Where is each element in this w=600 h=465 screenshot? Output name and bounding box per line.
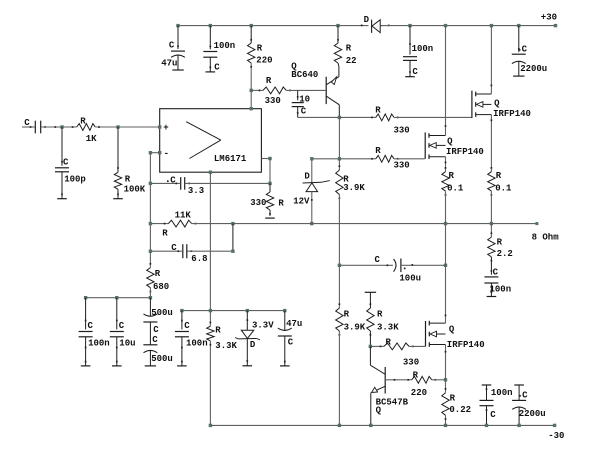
capacitor C 100n (bottom right) <box>480 385 494 425</box>
label R (3.3K mid) <box>215 326 221 336</box>
svg-text:IRFP140: IRFP140 <box>447 340 485 350</box>
wire output rail <box>192 223 537 225</box>
svg-text:11K: 11K <box>175 210 192 220</box>
capacitor C 100n (mid) <box>175 311 189 366</box>
wire BC547B base row <box>385 379 412 381</box>
svg-text:D: D <box>364 15 370 25</box>
capacitor C 500u (lower of pair) <box>143 322 157 366</box>
wire rail to 100u junction <box>445 224 447 266</box>
value IRFP140 (top) <box>493 109 531 119</box>
svg-text:C: C <box>63 157 69 167</box>
svg-text:R: R <box>162 228 168 238</box>
wire R220 to op-amp V+ <box>250 90 252 108</box>
junction feedback node <box>149 151 152 154</box>
junction top rail / C47u <box>176 24 179 27</box>
label R (shunt) <box>278 199 284 209</box>
svg-text:+30: +30 <box>541 13 557 23</box>
pin V- (bottom) <box>209 171 212 174</box>
wire input stub <box>22 126 35 128</box>
wire R330 to BC640 base <box>286 89 325 91</box>
junction 100u row left <box>338 264 341 267</box>
svg-text:C: C <box>214 63 220 73</box>
wire R1K to op-amp + <box>95 126 159 128</box>
svg-text:R: R <box>344 310 350 320</box>
value 22 <box>346 56 357 66</box>
wire - input to feedback node <box>150 152 159 154</box>
junction C3.3 row / feedback <box>149 182 152 185</box>
label R (220 base) <box>413 370 419 380</box>
label C (Zobel) <box>493 268 499 278</box>
svg-text:C: C <box>153 325 159 335</box>
junction BC640 collector node <box>338 116 341 119</box>
svg-text:R: R <box>80 116 86 126</box>
svg-text:3.3V: 3.3V <box>252 321 274 331</box>
wire gate row 2 (right) <box>394 158 425 160</box>
svg-text:Q: Q <box>494 99 500 109</box>
svg-text:100u: 100u <box>399 273 421 283</box>
resistor R 330 (output shunt) <box>265 183 275 218</box>
junction row / 500u <box>149 296 152 299</box>
junction top rail / Q1 drain <box>490 24 493 27</box>
wire Q1 source to rail <box>490 191 492 224</box>
resistor R 11K <box>164 220 197 227</box>
value 100n (ll) <box>88 339 110 349</box>
label C (6.8) <box>171 243 177 253</box>
svg-text:330: 330 <box>394 161 410 171</box>
junction feedback / 11K rail <box>149 222 152 225</box>
label +30 <box>541 13 557 23</box>
label C (input) <box>24 118 30 128</box>
svg-text:2.2: 2.2 <box>497 249 513 259</box>
svg-text:3.9K: 3.9K <box>343 183 365 193</box>
resistor R 0.1 (left) <box>442 167 449 196</box>
svg-text:R: R <box>125 175 131 185</box>
svg-text:22: 22 <box>346 56 357 66</box>
label R (11K) <box>162 228 168 238</box>
pin V+ (top) <box>250 107 253 110</box>
value 47u <box>161 59 177 69</box>
capacitor C 10u <box>110 298 124 366</box>
svg-text:C: C <box>88 321 94 331</box>
capacitor C 100n (lower left) <box>79 298 93 366</box>
junction R1K / R100K <box>116 125 119 128</box>
value 0.1 (L) <box>447 184 464 194</box>
value 330 (gate Q2) <box>394 161 410 171</box>
junction 100u row right <box>444 264 447 267</box>
resistor R 3.9K (lower) <box>336 303 343 335</box>
label R (1K) <box>80 116 86 126</box>
junction C2200u / -30 rail <box>517 424 520 427</box>
label D (3.3V) <box>250 340 256 350</box>
svg-text:R: R <box>278 199 284 209</box>
value 100n (mid) <box>186 339 208 349</box>
svg-text:100n: 100n <box>412 44 434 54</box>
svg-text:C: C <box>170 175 176 185</box>
junction rail / Q1 source <box>490 222 493 225</box>
wire op-amp output <box>261 159 270 184</box>
resistor R 680 <box>147 263 154 292</box>
svg-text:Q: Q <box>449 325 455 335</box>
wire base drive row <box>251 89 263 91</box>
junction row / V- column <box>209 309 212 312</box>
capacitor C 100n (Zobel) <box>484 257 498 297</box>
wire C6.8 row left <box>150 250 182 252</box>
junction top rail / R22 <box>336 24 339 27</box>
label D (12V) <box>304 172 310 182</box>
value 330 (gate Q1) <box>394 126 410 136</box>
junction R220 / source column <box>444 378 447 381</box>
label R (2.2) <box>497 238 503 248</box>
label C (3.3) <box>170 175 176 185</box>
junction R0.22 / -30 rail <box>444 424 447 427</box>
label Q (IRFP140 mid) <box>447 137 453 147</box>
svg-text:100p: 100p <box>64 175 86 185</box>
value 3.3K (bias) <box>377 323 399 333</box>
resistor R 0.22 <box>442 380 449 426</box>
svg-text:12V: 12V <box>293 197 310 207</box>
value 100K <box>124 185 146 195</box>
pin + (non-inverting input) <box>158 123 169 133</box>
capacitor C 2200u (bottom right) <box>512 385 526 425</box>
wire input to R1K <box>41 126 76 128</box>
wire feedback vertical <box>149 153 151 268</box>
label BC547B <box>376 398 409 408</box>
capacitor C (input coupling) <box>30 121 46 134</box>
svg-text:C: C <box>301 107 307 117</box>
svg-text:C: C <box>152 335 158 345</box>
label R (gate Q3) <box>386 338 392 348</box>
svg-text:R: R <box>375 146 381 156</box>
capacitor C 3.3 (feedback) <box>167 177 190 190</box>
label C (500u upper) <box>153 325 159 335</box>
wire rail to 11K <box>150 223 168 225</box>
value 330 (shunt) <box>250 198 266 208</box>
wire 100u row left seg <box>339 264 393 266</box>
svg-text:C: C <box>375 255 381 265</box>
value 10u <box>119 339 135 349</box>
value 330 (gate Q3) <box>403 358 419 368</box>
wire -30 bottom rail <box>210 424 554 426</box>
junction R220 / R330 base drive <box>250 89 253 92</box>
svg-text:LM6171: LM6171 <box>214 154 247 164</box>
svg-text:R: R <box>449 171 455 181</box>
value 2200u (br) <box>519 409 546 419</box>
label R (0.1 L) <box>449 171 455 181</box>
value 680 <box>153 282 169 292</box>
junction -30 rail / 3.3K column <box>209 424 212 427</box>
label R (0.22) <box>450 394 456 404</box>
value 11K <box>175 210 192 220</box>
wire gate row 3 right <box>409 345 425 347</box>
label R (22) <box>346 44 352 54</box>
resistor R 100K <box>113 127 123 199</box>
svg-text:330: 330 <box>403 358 419 368</box>
capacitor C 6.8 <box>177 244 192 258</box>
junction zener / output rail <box>310 222 313 225</box>
resistor R 1K <box>77 124 96 131</box>
label C (100n mid) <box>184 321 190 331</box>
value 330 (base) <box>265 96 281 106</box>
junction top rail / Q2 drain <box>444 24 447 27</box>
label C (500u lower) <box>152 335 158 345</box>
value 47u (mid) <box>286 319 302 329</box>
junction C3.3 / output column <box>268 182 271 185</box>
label C (100n ll) <box>88 321 94 331</box>
svg-text:3.3K: 3.3K <box>215 341 237 351</box>
junction zener / gate row corner <box>310 157 313 160</box>
svg-text:220: 220 <box>411 388 427 398</box>
label R (330 base) <box>266 76 272 86</box>
junction C6.8 corner <box>231 250 234 253</box>
value 2200u (top) <box>520 64 547 74</box>
label C (2200u top) <box>519 45 528 55</box>
value 0.22 <box>449 405 471 415</box>
svg-text:0.1: 0.1 <box>495 184 512 194</box>
svg-text:C: C <box>169 41 175 51</box>
svg-text:2200u: 2200u <box>520 64 547 74</box>
wire lower-left row <box>86 297 151 299</box>
svg-text:100n: 100n <box>491 388 513 398</box>
svg-text:C: C <box>171 243 177 253</box>
svg-text:IRFP140: IRFP140 <box>493 109 531 119</box>
label R (100K) <box>125 175 131 185</box>
wire C10 bottom to collector node <box>298 116 340 118</box>
svg-text:100n: 100n <box>490 285 512 295</box>
svg-text:680: 680 <box>153 282 169 292</box>
svg-text:-30: -30 <box>548 431 564 441</box>
svg-text:R: R <box>450 394 456 404</box>
value 0.1 (R) <box>495 184 512 194</box>
svg-text:R: R <box>377 310 383 320</box>
svg-text:220: 220 <box>256 56 272 66</box>
wire 100u row right seg <box>401 264 446 266</box>
value IRFP140 (mid) <box>446 147 484 157</box>
value 6.8 <box>191 254 207 264</box>
svg-text:R: R <box>215 326 221 336</box>
svg-text:47u: 47u <box>286 319 302 329</box>
value 3.9K (up) <box>343 183 365 193</box>
resistor R 220 (base) <box>407 376 436 383</box>
svg-text:10: 10 <box>299 95 310 105</box>
value IRFP140 (bot) <box>447 340 485 350</box>
label R (gate Q2) <box>375 146 381 156</box>
resistor R 3.9K (upper) <box>336 165 343 199</box>
svg-text:C: C <box>184 321 190 331</box>
junction emitter / -30 rail <box>369 424 372 427</box>
wire gate row 3 <box>370 345 384 347</box>
svg-text:330: 330 <box>394 126 410 136</box>
svg-text:IRFP140: IRFP140 <box>446 147 484 157</box>
svg-text:10u: 10u <box>119 339 135 349</box>
svg-text:BC640: BC640 <box>291 70 318 80</box>
label C (x410) <box>412 67 418 77</box>
svg-text:500u: 500u <box>151 308 173 318</box>
label C (2200u br) <box>519 391 528 401</box>
resistor R 330 (base drive) <box>259 87 291 94</box>
svg-text:Q: Q <box>447 137 453 147</box>
svg-text:+: + <box>163 123 168 133</box>
wire 3.9K lower to -30 rail <box>338 331 340 425</box>
wire zener to gate row 2 <box>312 158 340 160</box>
capacitor C 10 (Miller) <box>292 90 304 117</box>
wire +30 top supply rail (left part) <box>178 25 369 27</box>
svg-text:330: 330 <box>250 198 266 208</box>
svg-text:47u: 47u <box>161 59 177 69</box>
junction rail / Q2 source <box>444 222 447 225</box>
diode D 12V (zener) <box>303 159 330 224</box>
wire mid-bottom row <box>182 310 285 312</box>
svg-text:C: C <box>24 118 30 128</box>
junction row / C47u corner <box>283 309 286 312</box>
value 500u (lower) <box>151 354 173 364</box>
svg-text:R: R <box>257 44 263 54</box>
label R (3.9K low) <box>344 310 350 320</box>
resistor R 0.1 (right) <box>488 167 495 196</box>
svg-text:100n: 100n <box>214 41 236 51</box>
wire gate row 1 (left) <box>339 116 375 118</box>
value 500u (upper) <box>151 308 173 318</box>
label C (47u mid) <box>288 338 294 348</box>
value 100p <box>64 175 86 185</box>
capacitor C 500u (upper of pair) <box>143 298 157 322</box>
svg-text:0.22: 0.22 <box>449 405 471 415</box>
svg-text:R: R <box>346 44 352 54</box>
svg-text:-: - <box>164 149 169 159</box>
junction gate row 2 / 3.9K column <box>338 157 341 160</box>
transistor Q IRFP140 (top) <box>472 26 492 172</box>
junction row / C10u <box>115 296 118 299</box>
value 100n (x410) <box>412 44 434 54</box>
wire C6.8 to rail <box>232 224 234 252</box>
svg-text:C: C <box>522 391 528 401</box>
junction 3.3K / gate row 3 <box>369 345 372 348</box>
svg-text:R: R <box>497 238 503 248</box>
junction C6.8 / feedback <box>149 250 152 253</box>
label C (10u) <box>119 321 125 331</box>
pin - (inverting input) <box>158 149 169 159</box>
junction row / zener 3.3V <box>246 309 249 312</box>
svg-text:3.9K: 3.9K <box>344 323 366 333</box>
svg-text:R: R <box>386 338 392 348</box>
svg-text:8 Ohm: 8 Ohm <box>532 233 560 243</box>
label D (top diode) <box>364 15 370 25</box>
wire gate row 1 (right) <box>394 116 471 118</box>
svg-text:C: C <box>493 268 499 278</box>
svg-text:R: R <box>496 171 502 181</box>
wire 100u row to lower 3.9K <box>338 265 340 308</box>
label C (br) <box>490 410 496 420</box>
wire 3.9K to 100u row <box>338 195 340 266</box>
label C (100n top) <box>214 63 220 73</box>
wire Q2 source to rail <box>445 191 447 224</box>
label R (gate Q1) <box>375 106 381 116</box>
junction row / C100n <box>84 296 87 299</box>
transistor Q IRFP140 (bottom) <box>426 265 447 380</box>
wire op-amp V- column <box>209 172 211 310</box>
label Q (BC547B) <box>376 406 382 416</box>
value 220 (base) <box>411 388 427 398</box>
capacitor C 47u (electrolytic, +30 rail) <box>171 26 185 70</box>
svg-text:6.8: 6.8 <box>191 254 207 264</box>
transistor Q BC640 (PNP) <box>326 67 339 118</box>
wire R220 to source column <box>432 379 446 381</box>
value 3.9K (low) <box>344 323 366 333</box>
value 10 <box>299 95 310 105</box>
resistor R 3.3K (V- column) <box>207 311 214 426</box>
resistor R 220 <box>248 26 255 91</box>
junction 3.9K / -30 rail <box>338 424 341 427</box>
resistor R 2.2 (Zobel) <box>488 224 495 262</box>
label Q (IRFP140 top) <box>494 99 500 109</box>
junction input node / C100p <box>60 125 63 128</box>
svg-text:D: D <box>250 340 256 350</box>
svg-text:R: R <box>155 269 161 279</box>
label R (0.1 R) <box>496 171 502 181</box>
junction top rail / C100n right <box>408 24 411 27</box>
node +30 rail end <box>554 24 557 27</box>
junction top rail / C100n <box>209 24 212 27</box>
label C (100u) <box>375 255 381 265</box>
svg-text:C: C <box>412 67 418 77</box>
label Q (IRFP140 bot) <box>449 325 455 335</box>
wire gate row 2 (left) <box>339 158 375 160</box>
junction top rail / R220 <box>250 24 253 27</box>
resistor R 3.3K (bias) <box>365 292 376 346</box>
svg-text:100K: 100K <box>124 185 146 195</box>
label R (220) <box>257 44 263 54</box>
diode D (series in +30 rail) <box>361 20 390 33</box>
svg-text:3.3: 3.3 <box>188 186 204 196</box>
svg-text:C: C <box>490 410 496 420</box>
junction row / C100n mid <box>180 309 183 312</box>
value 3.3V <box>252 321 274 331</box>
capacitor C 100u (bootstrap) <box>394 259 406 273</box>
label 8 Ohm <box>532 233 560 243</box>
diode D 3.3V (zener) <box>235 311 260 366</box>
wire C6.8 row right <box>187 250 233 252</box>
capacitor C 47u (mid) <box>278 311 292 366</box>
svg-text:500u: 500u <box>151 354 173 364</box>
resistor R 330 (gate Q2) <box>371 155 398 162</box>
svg-text:R: R <box>375 106 381 116</box>
label C (100p) <box>63 157 69 167</box>
junction C100n / -30 rail <box>485 424 488 427</box>
label LM6171 <box>214 154 247 164</box>
junction rail / C6.8 branch <box>231 222 234 225</box>
svg-text:0.1: 0.1 <box>447 184 464 194</box>
transistor Q BC547B (NPN) <box>370 346 385 425</box>
label R (3.3K bias) <box>377 310 383 320</box>
label C (47u) <box>169 41 175 51</box>
node -30 rail end <box>553 424 556 427</box>
value 3.3K (mid) <box>215 341 237 351</box>
svg-text:330: 330 <box>265 96 281 106</box>
wire collector to 3.9K <box>338 117 340 170</box>
svg-text:R: R <box>413 370 419 380</box>
value 100u <box>399 273 421 283</box>
svg-text:D: D <box>304 172 310 182</box>
svg-text:C: C <box>119 321 125 331</box>
wire +30 top supply rail (right part) <box>381 25 556 27</box>
value 220 <box>256 56 272 66</box>
capacitor C 100n (rail, x410) <box>403 26 417 77</box>
value 1K <box>86 134 97 144</box>
svg-text:1K: 1K <box>86 134 97 144</box>
svg-text:C: C <box>522 45 528 55</box>
label -30 <box>548 431 564 441</box>
label R (3.9K up) <box>343 175 349 185</box>
value BC640 <box>291 70 318 80</box>
